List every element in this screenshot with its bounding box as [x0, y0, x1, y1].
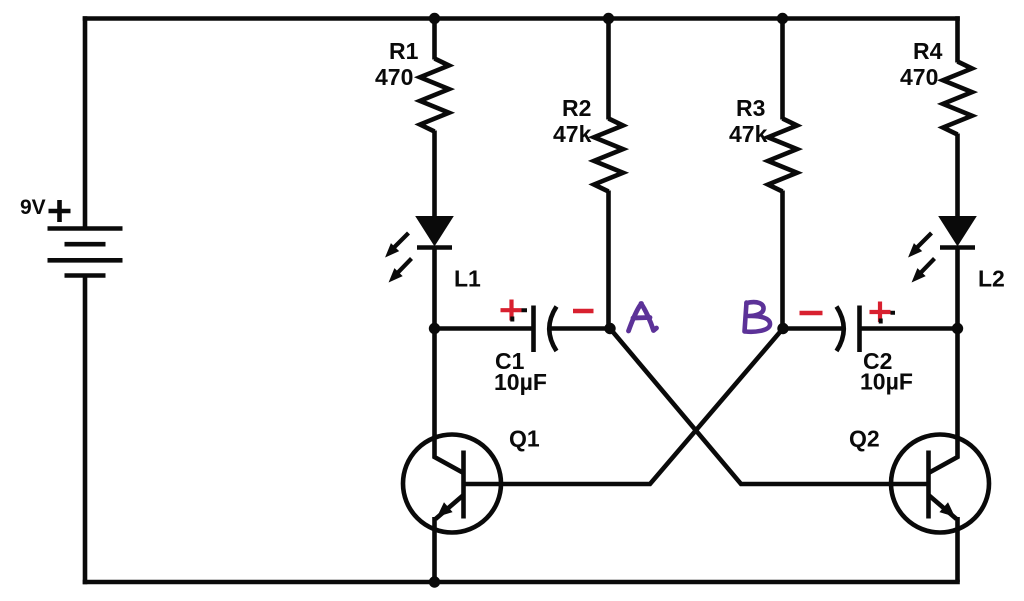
wire node to C1 [433, 326, 532, 331]
resistor R1 [420, 59, 449, 132]
svg-text:10µF: 10µF [860, 369, 913, 395]
svg-text:10µF: 10µF [494, 369, 547, 395]
LED L2 [909, 217, 975, 282]
wire L2 to node [955, 248, 960, 331]
svg-text:Q1: Q1 [509, 426, 540, 452]
wire left rail upper [83, 16, 88, 227]
svg-text:R2: R2 [562, 95, 591, 121]
wire top rail [83, 16, 960, 21]
node junction L2 C2 [952, 323, 963, 334]
capacitor C1 [534, 306, 557, 353]
wire node to Q2 collector [929, 329, 958, 474]
wire C1 to node A [551, 326, 611, 331]
svg-text:R4: R4 [913, 38, 943, 64]
wire R1 to L1 [432, 131, 437, 219]
wire C2 to node [860, 326, 960, 331]
svg-text:L1: L1 [454, 266, 481, 292]
node A junction [604, 323, 615, 334]
transistor Q1 [403, 435, 501, 533]
wire R4 to L2 [955, 134, 960, 219]
svg-text:R3: R3 [736, 95, 765, 121]
battery B1 9V [48, 229, 123, 276]
capacitor C2 black plus tips [881, 313, 895, 324]
node B purple handwritten letter [745, 302, 771, 332]
wire R2 to node A [606, 191, 611, 329]
capacitor C2 [837, 306, 860, 353]
capacitor C1 black plus tips [512, 310, 527, 321]
node B junction [777, 323, 788, 334]
capacitor C1 red minus annotation [573, 309, 594, 314]
wire R3 to node B [780, 191, 785, 329]
svg-text:R1: R1 [389, 38, 419, 64]
transistor Q2 [891, 435, 989, 533]
wire left rail lower [83, 276, 88, 585]
LED L1 [386, 217, 452, 282]
svg-text:Q2: Q2 [849, 426, 880, 452]
wire node to Q1 collector [435, 329, 464, 474]
svg-text:L2: L2 [978, 266, 1005, 292]
wire top rail to R3 [780, 19, 785, 120]
wire Q1 emitter to bottom rail [432, 517, 437, 582]
wire Q2 base to node A [610, 329, 929, 485]
wire bottom rail [83, 580, 960, 585]
resistor R4 [943, 62, 972, 135]
wire node B to C2 [783, 326, 843, 331]
svg-text:470: 470 [900, 64, 938, 90]
node junction L1 C1 [429, 323, 440, 334]
node junction top R3 [777, 13, 788, 24]
wire Q1 base to node B [464, 329, 784, 485]
svg-text:9V: 9V [20, 196, 46, 219]
node A purple handwritten letter [629, 304, 657, 332]
node junction bottom rail [429, 576, 440, 587]
node junction top R2 [603, 13, 614, 24]
resistor R3 [768, 119, 797, 192]
wire top rail to R4 [955, 16, 960, 62]
wire Q2 emitter to bottom rail [955, 517, 960, 582]
resistor R2 [594, 119, 623, 192]
capacitor C2 red plus annotation [870, 302, 891, 323]
battery plus sign [49, 200, 71, 222]
capacitor C2 red minus annotation [800, 311, 823, 316]
wire top rail to R2 [606, 19, 611, 120]
svg-text:47k: 47k [729, 121, 768, 147]
svg-text:47k: 47k [553, 121, 592, 147]
wire L1 to node [432, 248, 437, 331]
svg-text:470: 470 [375, 64, 413, 90]
capacitor C1 red plus annotation [501, 300, 522, 321]
wire top rail to R1 [432, 19, 437, 60]
node junction top R1 [429, 13, 440, 24]
